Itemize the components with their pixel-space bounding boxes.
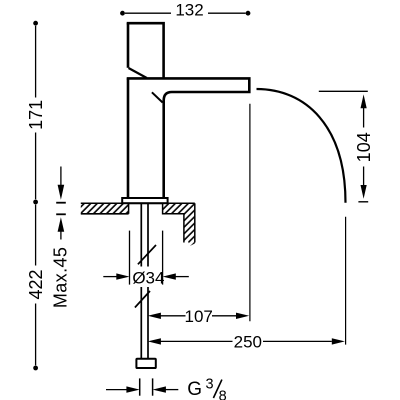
faucet lever handle bbox=[128, 23, 164, 78]
dimension Max.45 upper arrow bbox=[58, 167, 65, 200]
dimension G3/8 label bbox=[187, 377, 226, 400]
dimension Max.45 lower arrow bbox=[58, 217, 65, 239]
svg-text:G: G bbox=[187, 379, 202, 400]
dimension O34 arrows bbox=[103, 273, 189, 279]
extension line stream end bbox=[345, 217, 347, 345]
break slash upper bbox=[138, 245, 156, 264]
dimension 132 line bbox=[125, 12, 246, 14]
dimension 104 line and arrows bbox=[361, 94, 367, 198]
G3/8 hose fitting bbox=[136, 359, 155, 368]
extension line spout end bbox=[249, 104, 251, 321]
break slash lower bbox=[135, 291, 150, 308]
dimension 250 line and arrows bbox=[148, 338, 345, 344]
svg-text:422: 422 bbox=[26, 269, 46, 299]
dimension O34 label bbox=[132, 267, 165, 288]
countertop surface line bbox=[81, 202, 195, 204]
svg-text:8: 8 bbox=[219, 388, 227, 400]
dimension 171 end dots bbox=[33, 21, 38, 26]
svg-text:132: 132 bbox=[175, 1, 203, 20]
spout seam diagonal bbox=[152, 92, 163, 102]
countertop hatched section right (L-shaped) bbox=[163, 203, 195, 246]
dimension 107 line and arrows bbox=[148, 313, 250, 319]
svg-text:107: 107 bbox=[185, 307, 213, 326]
dimension 422 end dot bbox=[33, 366, 38, 371]
dimension 422 line bbox=[35, 205, 37, 366]
dimension 171 line bbox=[35, 26, 37, 200]
svg-text:250: 250 bbox=[234, 333, 262, 352]
svg-text:171: 171 bbox=[26, 100, 46, 130]
svg-text:3: 3 bbox=[206, 377, 214, 393]
countertop hatched section left bbox=[81, 203, 129, 214]
dimension G3/8 ticks bbox=[140, 378, 153, 395]
water stream curve bbox=[257, 89, 346, 203]
svg-text:104: 104 bbox=[354, 132, 374, 162]
svg-text:Ø34: Ø34 bbox=[132, 269, 164, 288]
dimension 132 end dots bbox=[120, 11, 125, 16]
faucet base plate bbox=[122, 198, 167, 203]
svg-text:Max.45: Max.45 bbox=[50, 247, 70, 308]
dimension O34 extension lines bbox=[130, 231, 163, 285]
dimension G3/8 arrows bbox=[106, 386, 178, 392]
dimension Max.45 ticks bbox=[56, 203, 66, 215]
threaded supply shank bbox=[141, 204, 148, 359]
dimension 104 extension ticks bbox=[319, 91, 368, 202]
spout and body outline bbox=[127, 78, 250, 198]
